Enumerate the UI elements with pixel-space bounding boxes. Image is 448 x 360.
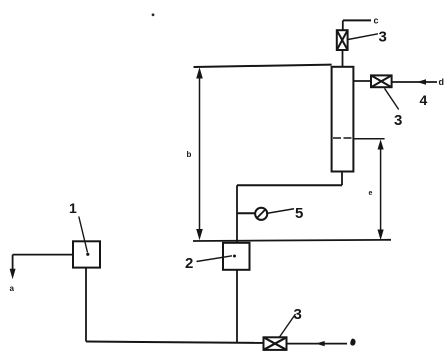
wire: sensor stub — [237, 212, 256, 214]
leader to label 3 (bottom valve) — [280, 314, 296, 337]
svg-text:5: 5 — [295, 205, 303, 222]
wire: bottom recycle line to valve V3 — [86, 342, 264, 343]
column (distillation column) — [332, 67, 354, 172]
slash through sensor — [257, 209, 266, 218]
wire: bottoms line down into vessel 2 — [236, 185, 238, 243]
valve 3 (right, horizontal box with X) — [371, 75, 392, 87]
wire: column bottoms outlet down — [341, 172, 343, 186]
leader to label 3 (top) — [348, 34, 378, 40]
leader to label 2 — [197, 256, 233, 262]
node mark (bottom-right stream letter) — [350, 339, 355, 346]
svg-text:1: 1 — [69, 200, 77, 216]
wire: column to valve V2 — [353, 80, 371, 82]
arrowhead (stream a, pointing down) — [10, 269, 16, 279]
wire: valve V1 to column top — [342, 50, 344, 67]
leader to label 1 — [79, 217, 88, 253]
arrowhead (bottom stream, pointing left) — [316, 341, 325, 346]
sensor 5 (circle with slash) — [255, 208, 267, 220]
wire: long feed line into column top left — [194, 65, 332, 67]
wire: overhead outlet line to stream c — [343, 19, 371, 21]
vessel 1 — [73, 241, 100, 267]
svg-text:e: e — [369, 190, 373, 197]
wire: valve V1 top riser — [342, 20, 344, 30]
dimension line b (vertical with arrows) — [196, 67, 203, 240]
wire: stream d inlet line with arrow into valve V2 — [392, 81, 437, 83]
arrowhead (stream d, pointing left) — [417, 79, 426, 84]
svg-text:d: d — [439, 77, 445, 87]
stray ink speck — [152, 13, 155, 16]
svg-text:3: 3 — [394, 112, 402, 129]
leader to label 3 (right valve) — [385, 88, 399, 109]
valve 3 (top, vertical box with X) — [337, 30, 348, 50]
svg-text:3: 3 — [294, 306, 302, 323]
vessel 2 — [223, 243, 250, 270]
leader dot inside vessel 1 — [86, 253, 89, 256]
svg-text:4: 4 — [420, 92, 428, 108]
wire: vessel 1 bottom outlet down — [85, 268, 87, 342]
svg-text:b: b — [187, 150, 192, 159]
svg-text:3: 3 — [379, 29, 387, 46]
dimension baseline between arrows b and e — [193, 240, 391, 241]
wire: vessel 2 bottom outlet — [236, 270, 238, 343]
dashed liquid level line in column — [333, 137, 352, 139]
wire: stream inlet line with arrow into valve V3 — [287, 343, 348, 345]
wire: level tap line from column to dimension e — [353, 138, 384, 140]
valve 3 (bottom, horizontal box with X) — [264, 337, 287, 350]
leader through sensor to label 5 — [266, 209, 294, 214]
dimension line e (vertical with arrows) — [378, 139, 384, 240]
svg-text:a: a — [10, 284, 15, 293]
wire: vessel 1 outlet to the left — [13, 254, 73, 256]
wire: stream a drop line — [12, 255, 14, 270]
wire: bottoms line horizontal to the left — [237, 184, 342, 186]
svg-text:2: 2 — [185, 255, 193, 272]
leader dot inside vessel 2 — [233, 255, 236, 258]
svg-text:c: c — [374, 16, 379, 26]
